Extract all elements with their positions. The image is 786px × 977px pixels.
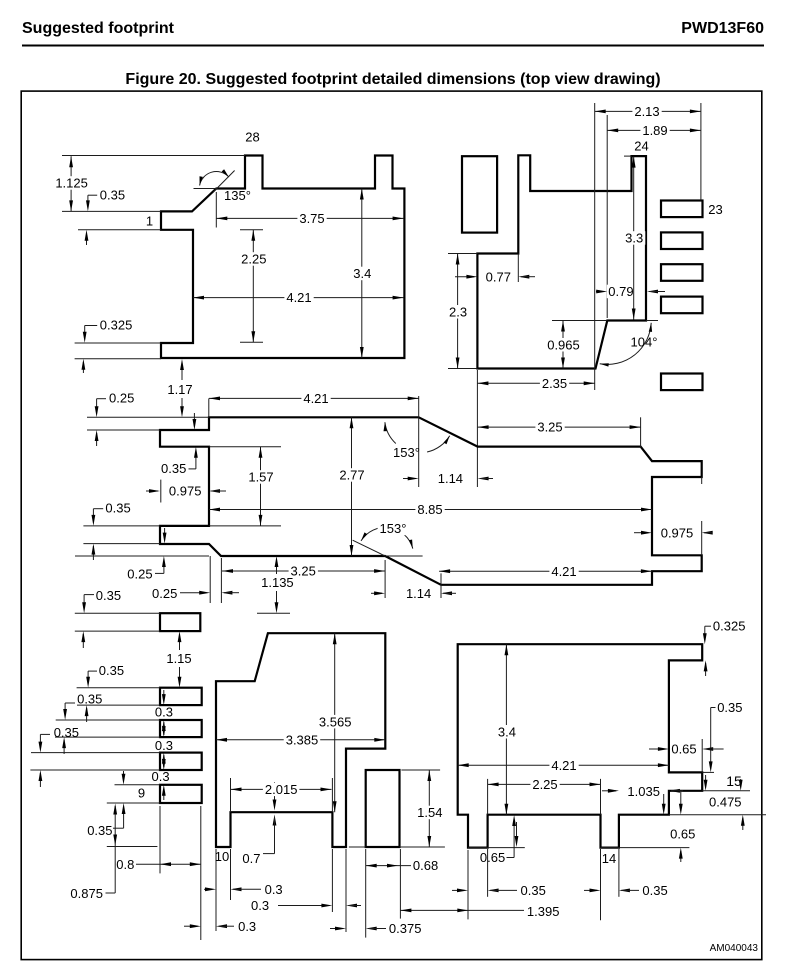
extension line 1.57 bottom [209, 525, 281, 527]
dim 0.68 pad11 width [366, 865, 411, 867]
dim 1.035 [602, 790, 616, 792]
svg-text:0.35: 0.35 [717, 700, 742, 715]
dim 0.65 F lower right [680, 792, 682, 808]
extension line rail top [75, 342, 161, 344]
svg-text:10: 10 [215, 849, 229, 864]
svg-text:0.79: 0.79 [608, 284, 633, 299]
dim 2.25 vertical [252, 230, 254, 342]
pad D5 rectangle (pin 9) [160, 785, 202, 803]
extension line tab2 top left [83, 525, 160, 527]
pad outline F: bottom-right pad group [458, 644, 703, 847]
dim 4.21 horizontal [193, 297, 404, 299]
svg-text:23: 23 [708, 202, 722, 217]
extension pad11 right edge down [399, 849, 401, 919]
dim 0.975 left [146, 490, 158, 492]
extension x=702.2 below step [701, 739, 703, 772]
dim 0.3 gap D3-D4 [163, 722, 165, 732]
svg-text:0.35: 0.35 [87, 823, 112, 838]
svg-text:1.035: 1.035 [627, 784, 660, 799]
dim 1.54 vertical [428, 770, 430, 847]
svg-text:1.135: 1.135 [261, 575, 294, 590]
extension line below left bevel x=221.4 [220, 558, 222, 603]
angle reference line left of bevel vertex [194, 188, 217, 190]
dim 1.89 horizontal [607, 129, 701, 131]
pad D2 rectangle [160, 688, 202, 705]
svg-text:2.13: 2.13 [634, 104, 659, 119]
dim 0.77 [455, 276, 474, 278]
dim 0.3 E right leg gap [278, 905, 327, 907]
svg-text:1.57: 1.57 [248, 470, 273, 485]
svg-text:3.4: 3.4 [498, 724, 516, 739]
svg-text:0.3: 0.3 [155, 738, 173, 753]
label 0.35 F (pin15 tab) [711, 707, 716, 709]
svg-text:0.25: 0.25 [127, 567, 152, 582]
svg-text:0.65: 0.65 [671, 741, 696, 756]
label 0.35 D1 [84, 594, 94, 596]
svg-text:0.8: 0.8 [116, 857, 134, 872]
extension line rail bottom [75, 358, 161, 360]
dim 2.3 vertical [457, 254, 459, 369]
dim 0.65 F leg1 leader [507, 857, 515, 859]
svg-text:3.25: 3.25 [537, 420, 562, 435]
svg-text:9: 9 [138, 786, 145, 801]
extension y=814.7 right [669, 814, 766, 816]
dim 0.475 arrows [705, 775, 707, 786]
dim 3.3 vertical [633, 157, 635, 320]
svg-text:0.375: 0.375 [389, 921, 422, 936]
svg-text:Suggested footprint: Suggested footprint [22, 20, 175, 37]
extension line right (pad 23 top) [700, 103, 702, 201]
dim 2.13 horizontal [595, 110, 701, 112]
svg-text:0.3: 0.3 [155, 705, 173, 720]
extension F leg2 right down [618, 849, 620, 897]
dim 1.395 [400, 909, 468, 911]
label 0.35 D5 [113, 827, 124, 829]
dim 3.4 F vertical [505, 644, 507, 815]
svg-text:0.325: 0.325 [100, 318, 133, 333]
svg-text:2.3: 2.3 [449, 304, 467, 319]
svg-text:4.21: 4.21 [286, 290, 311, 305]
extension y=790.8 right of tab [702, 790, 750, 792]
svg-text:1.125: 1.125 [55, 176, 88, 191]
dim 0.325 lower arrow [82, 362, 84, 373]
extension x=701.7 stubs [701, 477, 703, 484]
extension of bottom diagonal beyond vertex [353, 540, 386, 556]
dim 0.975 right [634, 532, 648, 534]
extension notch left corner up [230, 778, 232, 812]
extension line tab2 bottom left [83, 543, 160, 545]
svg-text:3.75: 3.75 [299, 211, 324, 226]
dim 0.965 vertical [562, 321, 564, 369]
extension tick left of pin24 column top [624, 155, 632, 157]
label 0.25 gap between bevel extensions [180, 592, 205, 594]
extension E leg inner edge down [230, 849, 232, 900]
pad outline E: bottom-middle pad with bottom notch [216, 633, 385, 847]
dim 0.65 upper right [649, 748, 665, 750]
svg-text:24: 24 [634, 139, 648, 154]
angle arc 135 deg [200, 172, 229, 186]
dim 3.4 vertical [361, 189, 363, 359]
pad outline A: top-left corner pads (pin 28 row / pin 1) [161, 156, 404, 359]
svg-text:0.35: 0.35 [54, 725, 79, 740]
svg-text:Figure 20. Suggested footprint: Figure 20. Suggested footprint detailed … [125, 71, 660, 88]
svg-text:2.35: 2.35 [542, 376, 567, 391]
svg-text:PWD13F60: PWD13F60 [681, 20, 764, 37]
extension line tab1 top left [87, 429, 160, 431]
bevel extension diagonal [213, 171, 234, 193]
svg-text:0.3: 0.3 [152, 769, 170, 784]
extension pad11 top right [401, 769, 440, 771]
svg-text:2.015: 2.015 [265, 782, 298, 797]
dim 3.25 bottom-left horizontal [222, 570, 385, 572]
extension line bottom edge left [75, 555, 209, 557]
svg-text:0.3: 0.3 [251, 898, 269, 913]
extension line B left edge downward [476, 370, 478, 487]
svg-text:0.3: 0.3 [265, 882, 283, 897]
extension F leg2 left down [600, 849, 602, 920]
extension F leg1 left edge down [467, 850, 469, 920]
extension line bevel top left [552, 320, 607, 322]
svg-text:104°: 104° [631, 335, 658, 350]
label 0.35 D2 [88, 670, 97, 672]
svg-text:0.25: 0.25 [152, 586, 177, 601]
extension x=418.7 vertical [418, 396, 420, 487]
extension line 2.3 bottom [448, 368, 477, 370]
dim 0.35 F leg1 width [452, 889, 465, 891]
dim 0.35 F leg2 width [584, 889, 597, 891]
dim 0.35 lower arrow [86, 233, 88, 245]
pad D3 rectangle [160, 720, 202, 737]
extension F leg2 left edge up [600, 779, 602, 815]
label 0.35 mid-left (tab1 width) [189, 468, 196, 470]
extension x=160.8 for 0.975 [160, 480, 162, 503]
svg-text:0.25: 0.25 [109, 391, 134, 406]
extension line 2.3 top [448, 253, 477, 255]
dim 4.21 F horizontal [458, 764, 669, 766]
svg-text:2.77: 2.77 [339, 468, 364, 483]
dim 3.75 extension vertical [215, 192, 217, 228]
dim 2.25 F horizontal [488, 783, 601, 785]
svg-text:1.395: 1.395 [527, 904, 560, 919]
extension line top of pegs [62, 155, 245, 157]
svg-text:28: 28 [245, 130, 259, 145]
svg-text:3.4: 3.4 [353, 266, 371, 281]
leader 0.875 [106, 892, 116, 894]
dim 2.77 vertical [351, 417, 353, 556]
extension line 0.77 right [517, 254, 519, 283]
svg-text:3.385: 3.385 [286, 732, 319, 747]
svg-text:0.35: 0.35 [96, 588, 121, 603]
dim 4.21 bottom horizontal [439, 570, 652, 572]
extension x=640.6 vertical [640, 417, 642, 448]
svg-text:0.35: 0.35 [105, 501, 130, 516]
dim 1.17 vertical [181, 362, 183, 380]
angle arc 153 deg top (two segments around label) [385, 422, 396, 443]
extension line 1.57 top [209, 446, 281, 448]
extension line pad1 bottom [78, 229, 161, 231]
svg-text:1.14: 1.14 [438, 471, 463, 486]
extension E bottom edge left [107, 846, 158, 848]
extension leg bottoms y=847.6 [468, 847, 525, 849]
svg-text:0.475: 0.475 [709, 794, 742, 809]
pin15 leader arrow down [740, 779, 742, 786]
extension tick for 1.135 bottom [257, 612, 290, 614]
svg-text:1.14: 1.14 [406, 586, 431, 601]
dim 4.21 top horizontal [209, 397, 419, 399]
dim 3.565 vertical [334, 633, 336, 812]
pad outline C: middle elongated pad with side tabs [160, 417, 702, 585]
svg-text:0.975: 0.975 [661, 525, 694, 540]
dim 0.7 leader [274, 782, 276, 806]
dim 0.325 leader (rail width) [85, 325, 98, 327]
extension bottom line y=847 right segment [349, 846, 366, 848]
extension line diag top right [385, 555, 423, 557]
svg-text:1.15: 1.15 [166, 651, 191, 666]
extension E notch-right edge down [331, 849, 333, 912]
svg-text:4.21: 4.21 [551, 758, 576, 773]
dim 0.8 pad width [136, 863, 201, 865]
dim 8.85 horizontal [209, 509, 652, 511]
svg-text:15: 15 [726, 773, 742, 789]
extension line top edge left [87, 416, 209, 418]
extension pad D5 left edge down [159, 806, 161, 873]
svg-text:0.65: 0.65 [480, 850, 505, 865]
pin 23 pad rectangles [661, 201, 703, 218]
svg-text:0.35: 0.35 [100, 187, 125, 202]
svg-text:0.3: 0.3 [238, 919, 256, 934]
svg-text:1: 1 [146, 214, 153, 229]
svg-text:0.965: 0.965 [547, 337, 580, 352]
dim 1.14 bottom (bottom diagonal run) [371, 592, 382, 594]
dim 0.3 gap D2-D3 [163, 690, 165, 700]
extension x=385.1 below diagonal [384, 560, 386, 598]
svg-text:0.35: 0.35 [521, 883, 546, 898]
svg-text:2.25: 2.25 [532, 777, 557, 792]
svg-text:0.7: 0.7 [242, 851, 260, 866]
dim 1.135 vertical [276, 560, 278, 574]
angle arc 153 deg bottom [361, 527, 413, 548]
dim 1.57 vertical [260, 447, 262, 526]
pad rectangle left of pin24 column [462, 156, 497, 232]
svg-text:153°: 153° [393, 445, 420, 460]
svg-text:0.975: 0.975 [169, 484, 202, 499]
extension pad11 left edge down [365, 849, 367, 938]
leader arrow below 1.035 to bottom edge [663, 794, 665, 809]
svg-text:135°: 135° [224, 188, 251, 203]
label 0.35 left (tab2 width) [93, 508, 103, 510]
svg-text:0.875: 0.875 [70, 886, 103, 901]
dim 3.385 horizontal [216, 739, 385, 741]
extension 4.21 left above edge [208, 398, 210, 417]
svg-text:3.3: 3.3 [625, 231, 643, 246]
svg-text:4.21: 4.21 [551, 564, 576, 579]
svg-text:1.54: 1.54 [417, 805, 442, 820]
dim 1.15 vertical (D1 to D2 gap) [179, 634, 181, 650]
header rule [22, 45, 764, 47]
extension notch right corner up [331, 778, 333, 812]
extension F leg1 right edge up [487, 779, 489, 815]
dim 2.35 horizontal [477, 382, 594, 384]
svg-text:14: 14 [602, 851, 616, 866]
dim 0.375 [330, 928, 341, 930]
extension pad D5 right edge down [200, 806, 202, 940]
extension line pad1 top [62, 210, 161, 212]
dim 3.75 horizontal [216, 217, 403, 219]
svg-text:3.25: 3.25 [291, 564, 316, 579]
label 0.25 left lower (bottom gap) [155, 572, 164, 574]
dim 2.015 horizontal [231, 788, 332, 790]
extension line below left bevel x=210.2 [209, 556, 211, 603]
svg-text:1.17: 1.17 [167, 382, 192, 397]
extension y=772.4 right of tab [702, 771, 714, 773]
svg-text:0.68: 0.68 [413, 858, 438, 873]
svg-text:1.89: 1.89 [642, 123, 667, 138]
extension line 2.13 left [594, 103, 596, 390]
pad 11 rectangle [366, 770, 400, 847]
dim 1.125 vertical [70, 156, 72, 211]
svg-text:0.35: 0.35 [99, 663, 124, 678]
svg-text:3.565: 3.565 [319, 714, 352, 729]
angle arc 104 deg [600, 323, 652, 365]
svg-text:0.77: 0.77 [486, 269, 511, 284]
label 0.25 top-left [97, 398, 106, 400]
svg-text:2.25: 2.25 [241, 252, 266, 267]
extension tick 2.25 top [240, 229, 263, 231]
dim 0.79 arrows [596, 291, 604, 293]
svg-text:0.65: 0.65 [670, 826, 695, 841]
extension tick 2.25 bottom [240, 341, 263, 343]
pad D1 rectangle [160, 613, 200, 631]
extension line 1.89 left [606, 115, 608, 318]
dim 0.35 leader (pad 1 width) [88, 194, 97, 196]
svg-text:8.85: 8.85 [417, 502, 442, 517]
pad D4 rectangle [160, 753, 202, 770]
dim 1.14 right (top bevel run) [403, 478, 416, 480]
label 0.35 D4 [40, 733, 50, 735]
extension E left edge down [215, 849, 217, 931]
extension E right edge down [345, 849, 347, 932]
extension F leg1 right down [487, 849, 489, 897]
svg-text:0.35: 0.35 [642, 883, 667, 898]
svg-text:AM040043: AM040043 [710, 943, 759, 954]
label 0.35 D3 [65, 702, 75, 704]
extension lines left of pads [75, 612, 160, 614]
svg-text:0.35: 0.35 [77, 691, 102, 706]
svg-text:4.21: 4.21 [303, 391, 328, 406]
svg-text:0.35: 0.35 [161, 461, 186, 476]
extension x=441 below diagonal [440, 573, 442, 598]
svg-text:0.325: 0.325 [713, 619, 746, 634]
label 0.325 F [705, 625, 711, 627]
pad outline B: top-right corner pad group (pin 24 column) [477, 155, 646, 368]
dim 0.3 E left leg width [204, 888, 212, 890]
dim 0.3 gap pad9 to E [184, 925, 198, 927]
svg-text:153°: 153° [380, 521, 407, 536]
dim 0.3 gap D4-D5 [163, 755, 165, 765]
extension line bevel top right [646, 320, 658, 322]
dim 3.25 right horizontal [478, 426, 641, 428]
